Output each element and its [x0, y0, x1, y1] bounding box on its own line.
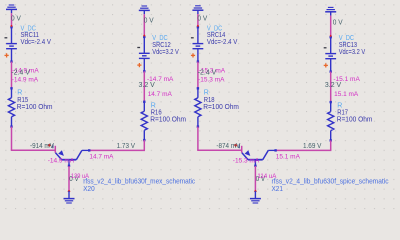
svg-text:R=100 Ohm: R=100 Ohm — [17, 104, 53, 111]
svg-text:1.69 V: 1.69 V — [303, 143, 322, 150]
svg-text:rfss_v2_4_lib_bfu630f_mex_sche: rfss_v2_4_lib_bfu630f_mex_schematic — [83, 176, 195, 185]
svg-text:R: R — [17, 90, 22, 97]
svg-text:0 V: 0 V — [144, 18, 154, 25]
svg-text:15.1 mA: 15.1 mA — [276, 153, 301, 160]
svg-text:Vdc=-2.4 V: Vdc=-2.4 V — [21, 39, 52, 46]
svg-text:-14.9 mA: -14.9 mA — [48, 157, 75, 164]
svg-text:X20: X20 — [83, 184, 95, 193]
svg-text:R=100 Ohm: R=100 Ohm — [203, 104, 239, 111]
svg-text:R: R — [204, 90, 209, 97]
svg-text:R17: R17 — [337, 110, 348, 117]
svg-text:R18: R18 — [204, 97, 215, 104]
svg-text:R: R — [151, 103, 156, 110]
svg-text:14.7 mA: 14.7 mA — [148, 91, 173, 98]
svg-text:-2.4 V: -2.4 V — [11, 70, 30, 77]
svg-text:-15.3 mA: -15.3 mA — [233, 157, 260, 164]
svg-text:0 V: 0 V — [197, 15, 207, 22]
svg-text:-14.9 mA: -14.9 mA — [12, 77, 39, 84]
svg-text:Vdc=3.2 V: Vdc=3.2 V — [339, 49, 366, 56]
svg-text:R16: R16 — [151, 110, 162, 117]
svg-text:15.1 mA: 15.1 mA — [334, 91, 359, 98]
svg-text:Vdc=-2.4 V: Vdc=-2.4 V — [207, 39, 238, 46]
svg-text:R=100 Ohm: R=100 Ohm — [337, 117, 373, 124]
svg-text:X21: X21 — [272, 184, 284, 193]
svg-text:3.2 V: 3.2 V — [139, 82, 156, 89]
svg-text:rfss_v2_4_lib_bfu630f_spice_sc: rfss_v2_4_lib_bfu630f_spice_schematic — [272, 176, 389, 185]
svg-text:0 V: 0 V — [11, 15, 21, 22]
svg-text:R=100 Ohm: R=100 Ohm — [150, 117, 186, 124]
svg-text:14.7 mA: 14.7 mA — [89, 153, 114, 160]
svg-text:0 V: 0 V — [333, 19, 343, 26]
svg-text:Vdc=3.2 V: Vdc=3.2 V — [152, 49, 179, 56]
svg-text:-15.3 mA: -15.3 mA — [198, 77, 225, 84]
svg-text:3.2 V: 3.2 V — [325, 82, 342, 89]
svg-text:R15: R15 — [17, 97, 28, 104]
svg-text:R: R — [337, 103, 342, 110]
svg-text:-914 mV: -914 mV — [30, 143, 54, 150]
svg-text:1.73 V: 1.73 V — [117, 143, 136, 150]
svg-text:-2.4 V: -2.4 V — [198, 70, 217, 77]
svg-text:-874 mV: -874 mV — [216, 143, 240, 150]
